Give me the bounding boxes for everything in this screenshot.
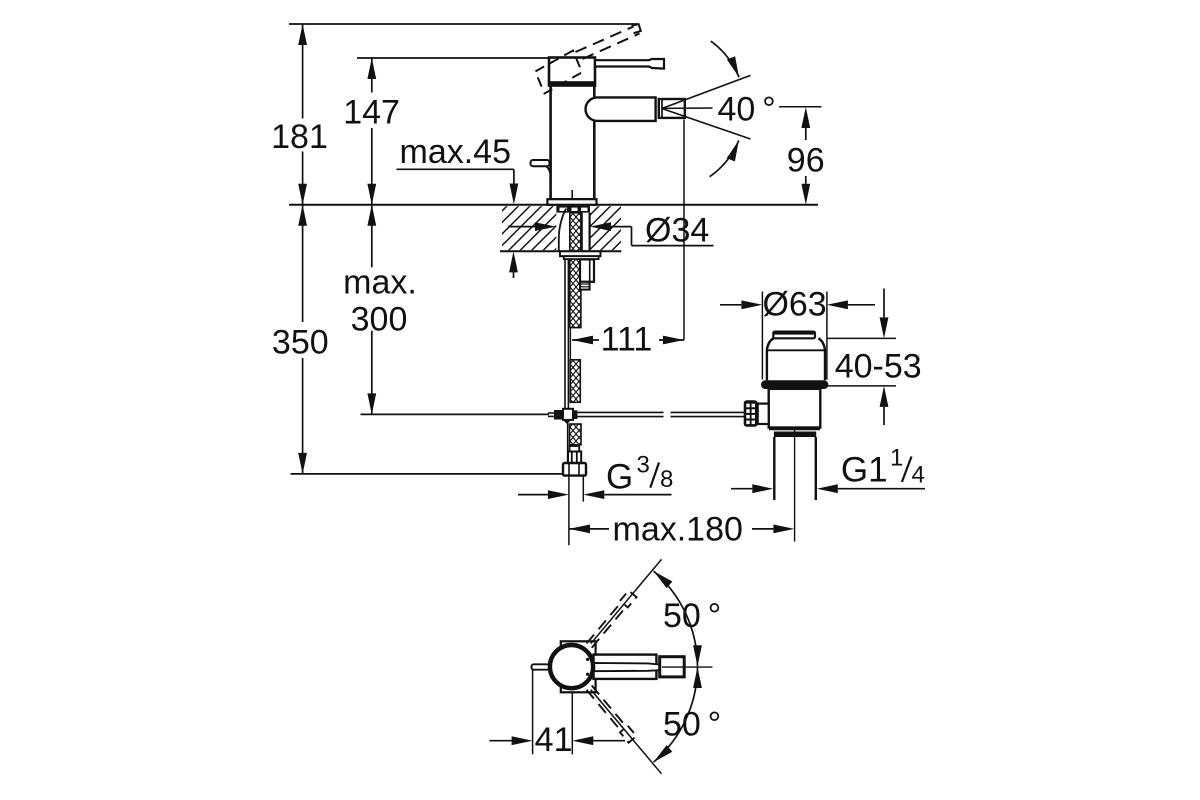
threaded shank tube in hole xyxy=(582,213,590,251)
faucet body column xyxy=(551,84,595,199)
dimension line 350 xyxy=(298,205,307,474)
hose end ferrule xyxy=(568,446,581,463)
check valve housing on shank xyxy=(580,259,594,289)
G3/8 dimension arrows xyxy=(518,490,672,499)
top view: spout outer tube xyxy=(594,655,657,679)
svg-text:max.: max. xyxy=(343,263,417,301)
rod-to-rod junction block xyxy=(548,409,577,424)
pop-up waste: knob neck xyxy=(758,404,769,424)
label 50 degrees upper xyxy=(663,597,721,635)
svg-text:8: 8 xyxy=(660,466,673,493)
dimension line 147 xyxy=(367,58,376,205)
faucet base plate xyxy=(547,199,596,205)
svg-text:Ø34: Ø34 xyxy=(645,212,709,250)
dimension Ø34 arrows xyxy=(508,222,714,245)
top view: 50 degree line lower xyxy=(591,690,662,774)
dimension 41 arrows xyxy=(490,736,626,745)
horizontal pop-up actuator rod right part xyxy=(671,412,745,416)
label Ø34 xyxy=(645,212,709,250)
label 181 xyxy=(271,118,328,156)
svg-text:4: 4 xyxy=(912,461,925,488)
svg-text:40 °: 40 ° xyxy=(718,91,776,129)
dashed handle in raised position: lever edges xyxy=(576,27,640,60)
dashed handle raised: tip xyxy=(632,24,641,33)
top view: body circle xyxy=(550,645,593,688)
top view: upper 50 arc with arrowheads xyxy=(654,571,702,666)
hose edge line through dimension break xyxy=(569,328,571,360)
pop-up waste: upper neck below plug xyxy=(767,338,825,380)
spray angle lines xyxy=(662,75,751,139)
label 350 xyxy=(272,324,329,362)
dimension line max.300 xyxy=(367,205,376,415)
40 degree centre line xyxy=(663,107,822,109)
deck hatched section right of hole xyxy=(590,206,621,250)
braided hose upper segment xyxy=(570,213,581,328)
dimension max.180 xyxy=(569,525,794,534)
dimension line 96 xyxy=(801,107,810,205)
label G3/8 xyxy=(606,452,673,497)
label 50 degrees lower xyxy=(663,706,721,744)
pop-up waste: valve body xyxy=(769,389,821,428)
dimension 40-53 extension lines xyxy=(827,338,896,386)
top view: 50 degree line upper xyxy=(591,559,662,643)
G3/8 hose nut xyxy=(563,463,586,476)
top view: handle lever seen from above xyxy=(591,663,662,671)
dimension 181 reference line top xyxy=(289,23,638,25)
deck top surface line xyxy=(289,204,818,206)
reference line bottom of max.300 xyxy=(361,413,550,415)
svg-text:3: 3 xyxy=(637,452,650,479)
deck hatched section left of hole xyxy=(502,206,556,250)
dimension 41 extension lines xyxy=(533,670,573,755)
pull rod knob on body xyxy=(531,160,551,177)
pull rod inside body above deck xyxy=(571,190,573,206)
svg-text:41: 41 xyxy=(535,721,573,759)
braided hose middle segment xyxy=(570,360,580,403)
top view: pull rod knob xyxy=(532,664,550,669)
label 96 xyxy=(787,142,825,180)
reference line bottom of 350 xyxy=(291,473,564,475)
handle block xyxy=(549,58,595,86)
label G1 1/4 xyxy=(841,445,925,490)
top view: dashed handle rotated down 50 xyxy=(585,684,636,742)
dimension Ø63 extension lines xyxy=(762,292,827,380)
label max.45 with leader xyxy=(397,133,519,205)
label 41 xyxy=(535,721,573,759)
extension line from aerator xyxy=(683,120,685,340)
svg-text:147: 147 xyxy=(343,94,400,132)
svg-text:96: 96 xyxy=(787,142,825,180)
top view: fixing dots xyxy=(586,658,589,676)
pop-up waste: plug cap xyxy=(773,332,815,339)
label max. 300 xyxy=(343,263,417,338)
pop-up waste: tailpipe xyxy=(774,437,816,500)
svg-text:Ø63: Ø63 xyxy=(762,286,826,324)
horizontal pop-up actuator rod left part xyxy=(577,412,663,416)
handle lever xyxy=(595,59,664,69)
top view: axis centre line xyxy=(662,666,713,668)
svg-text:111: 111 xyxy=(601,320,653,358)
pop-up waste: plug stem centre line xyxy=(794,423,796,542)
label Ø63 xyxy=(762,286,826,324)
svg-text:1: 1 xyxy=(890,445,903,472)
mounting nut under deck xyxy=(560,251,601,259)
label 147 xyxy=(343,94,400,132)
svg-text:300: 300 xyxy=(351,300,408,338)
svg-text:G: G xyxy=(606,458,633,497)
svg-text:G1: G1 xyxy=(841,450,888,489)
svg-text:350: 350 xyxy=(272,324,329,362)
svg-text:50 °: 50 ° xyxy=(663,597,721,635)
dashed handle in raised position: block outline xyxy=(535,51,582,94)
aerator xyxy=(659,99,685,118)
dimension 40-53 arrows xyxy=(880,289,889,426)
spout xyxy=(586,97,656,121)
deck bottom line xyxy=(500,250,621,252)
seal washer in deck hole xyxy=(556,206,590,213)
pop-up waste: body bottom band xyxy=(769,429,820,437)
dimension 111 xyxy=(572,336,684,345)
G3/8 extension lines xyxy=(569,477,583,546)
pop-up waste: flange seal ring xyxy=(761,380,828,389)
G1 1/4 dimension arrows xyxy=(731,484,925,493)
dimension 147 reference line xyxy=(357,57,549,59)
top view: base square plate xyxy=(561,641,596,692)
top view: aerator end cap xyxy=(660,657,685,677)
dimension line 181 xyxy=(298,24,307,205)
svg-text:40-53: 40-53 xyxy=(835,347,922,385)
pop-up pull rod vertical xyxy=(565,259,568,409)
label 40-53 xyxy=(835,347,922,385)
label 40 degrees xyxy=(718,91,776,129)
svg-text:max.180: max.180 xyxy=(613,510,743,548)
max.45 lower arrow xyxy=(509,251,518,278)
svg-text:50 °: 50 ° xyxy=(663,706,721,744)
40 degree arc lower with arrowhead xyxy=(710,140,739,176)
svg-text:max.45: max.45 xyxy=(400,133,512,171)
top view: dashed handle rotated up 50 xyxy=(585,591,636,649)
svg-text:181: 181 xyxy=(271,118,328,156)
label max.180 xyxy=(613,510,743,548)
top view: lower 50 arc with arrowheads xyxy=(654,667,702,762)
dimension Ø63 arrows xyxy=(720,300,875,309)
braided hose lower segment xyxy=(570,424,582,445)
pop-up waste: knurled adjuster knob xyxy=(744,400,758,426)
40 degree arc upper with arrowhead xyxy=(711,41,739,77)
pull rod lower thin segment to hose nut xyxy=(567,420,569,463)
label 111 xyxy=(601,320,653,358)
hose bend curve inside deck hole xyxy=(559,209,566,251)
